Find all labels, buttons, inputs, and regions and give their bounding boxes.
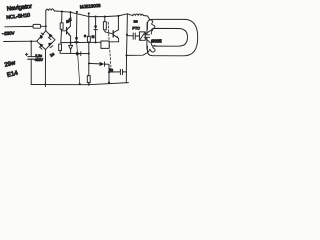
node C1 top junction <box>30 40 32 42</box>
wire DC bus top <box>54 11 127 17</box>
wire bottom feed to tube <box>127 49 150 55</box>
fuse F1 <box>33 24 41 28</box>
diode D2 <box>49 33 53 38</box>
bridge rectifier arm bottom-left <box>37 41 46 49</box>
diode D3 <box>39 43 43 47</box>
node A junction <box>45 25 47 27</box>
wire Q2 collector <box>117 15 119 17</box>
wire R1 to H1 <box>60 29 63 42</box>
wire Q1 base <box>61 30 66 32</box>
wire PTC row <box>127 35 133 37</box>
tube inner boundary <box>151 28 187 46</box>
wire D7 row <box>89 62 99 65</box>
transistor Q2 <box>112 31 114 37</box>
filament bottom <box>150 45 155 52</box>
resistor R3 <box>87 36 90 42</box>
resistor R5 emitter <box>88 63 90 75</box>
resistor R1 <box>60 23 63 30</box>
label C1 plus <box>25 53 27 55</box>
wire AC line bottom <box>4 40 37 42</box>
wire fuse to node A <box>41 25 46 27</box>
svg-text:400V: 400V <box>35 58 44 62</box>
diode D7 <box>100 62 105 66</box>
wire L2 to filament <box>143 16 149 20</box>
resistor R2 <box>59 44 62 51</box>
wire AC line top <box>5 25 33 27</box>
choke L1 <box>46 9 54 11</box>
diode D1 <box>40 35 43 40</box>
svg-text:9385: 9385 <box>152 38 163 43</box>
svg-text:29w: 29w <box>4 60 17 69</box>
diac <box>69 45 73 49</box>
node bridge-minus to rail <box>44 82 46 86</box>
bridge rectifier arm bottom-right <box>46 40 56 50</box>
capacitor C3 <box>132 33 134 39</box>
wire bottom rail <box>31 83 128 85</box>
wire H2 corner down <box>88 62 90 64</box>
wire Q2 emitter <box>109 38 118 41</box>
bridge rectifier arm top-right <box>46 31 55 40</box>
svg-text:o: o <box>84 34 86 38</box>
resistor R3 column <box>88 12 90 14</box>
bridge rectifier arm top-left <box>37 31 46 41</box>
wire H1 midline <box>61 41 101 43</box>
wire C1 bottom lead <box>30 59 32 84</box>
capacitor C2 row <box>109 71 120 73</box>
transistor Q1 <box>66 28 68 34</box>
capacitor C1 electrolytic <box>28 56 35 58</box>
wire right bus down <box>126 14 127 83</box>
diode D6 on H2 <box>76 52 80 56</box>
wire down to rail <box>108 64 110 83</box>
inductor L2 <box>127 14 132 16</box>
svg-text:E14: E14 <box>6 69 19 79</box>
svg-text:Navigator: Navigator <box>7 4 33 13</box>
filament top <box>150 20 155 31</box>
wire PTC to tube bottom filament <box>145 38 150 42</box>
wire bridge top to choke <box>45 11 47 31</box>
tube outer envelope <box>147 19 197 56</box>
diode D8 column <box>95 15 97 17</box>
transistor Q1 collector wire <box>69 11 71 13</box>
wire bridge bottom lead <box>44 50 46 85</box>
svg-text:NCL-SH10: NCL-SH10 <box>6 13 31 21</box>
transformer core dashed <box>108 22 109 48</box>
svg-text:4u7: 4u7 <box>65 16 74 24</box>
diode D4 <box>48 42 52 46</box>
wire PTC to tube top filament <box>145 30 151 33</box>
wire H2 lower line <box>60 52 89 54</box>
wire R1 column from bus <box>61 11 63 13</box>
wire C1 top lead <box>30 41 32 56</box>
transformer T1 winding box <box>101 41 109 48</box>
svg-text:1u: 1u <box>49 51 55 58</box>
svg-text:no: no <box>134 19 138 23</box>
svg-text:MJE13003: MJE13003 <box>80 3 101 9</box>
svg-text:N: N <box>92 35 95 39</box>
svg-text:~230V: ~230V <box>2 31 15 37</box>
PTC thermistor <box>139 32 145 40</box>
capacitor C4 resonant <box>146 23 148 35</box>
wire Q1 emitter down <box>70 36 72 45</box>
resistor R4 column <box>104 16 106 18</box>
wire faint to rail <box>77 43 80 85</box>
svg-text:PTC: PTC <box>132 27 140 31</box>
diode D5 column <box>76 11 78 13</box>
svg-text:3n: 3n <box>109 68 113 72</box>
